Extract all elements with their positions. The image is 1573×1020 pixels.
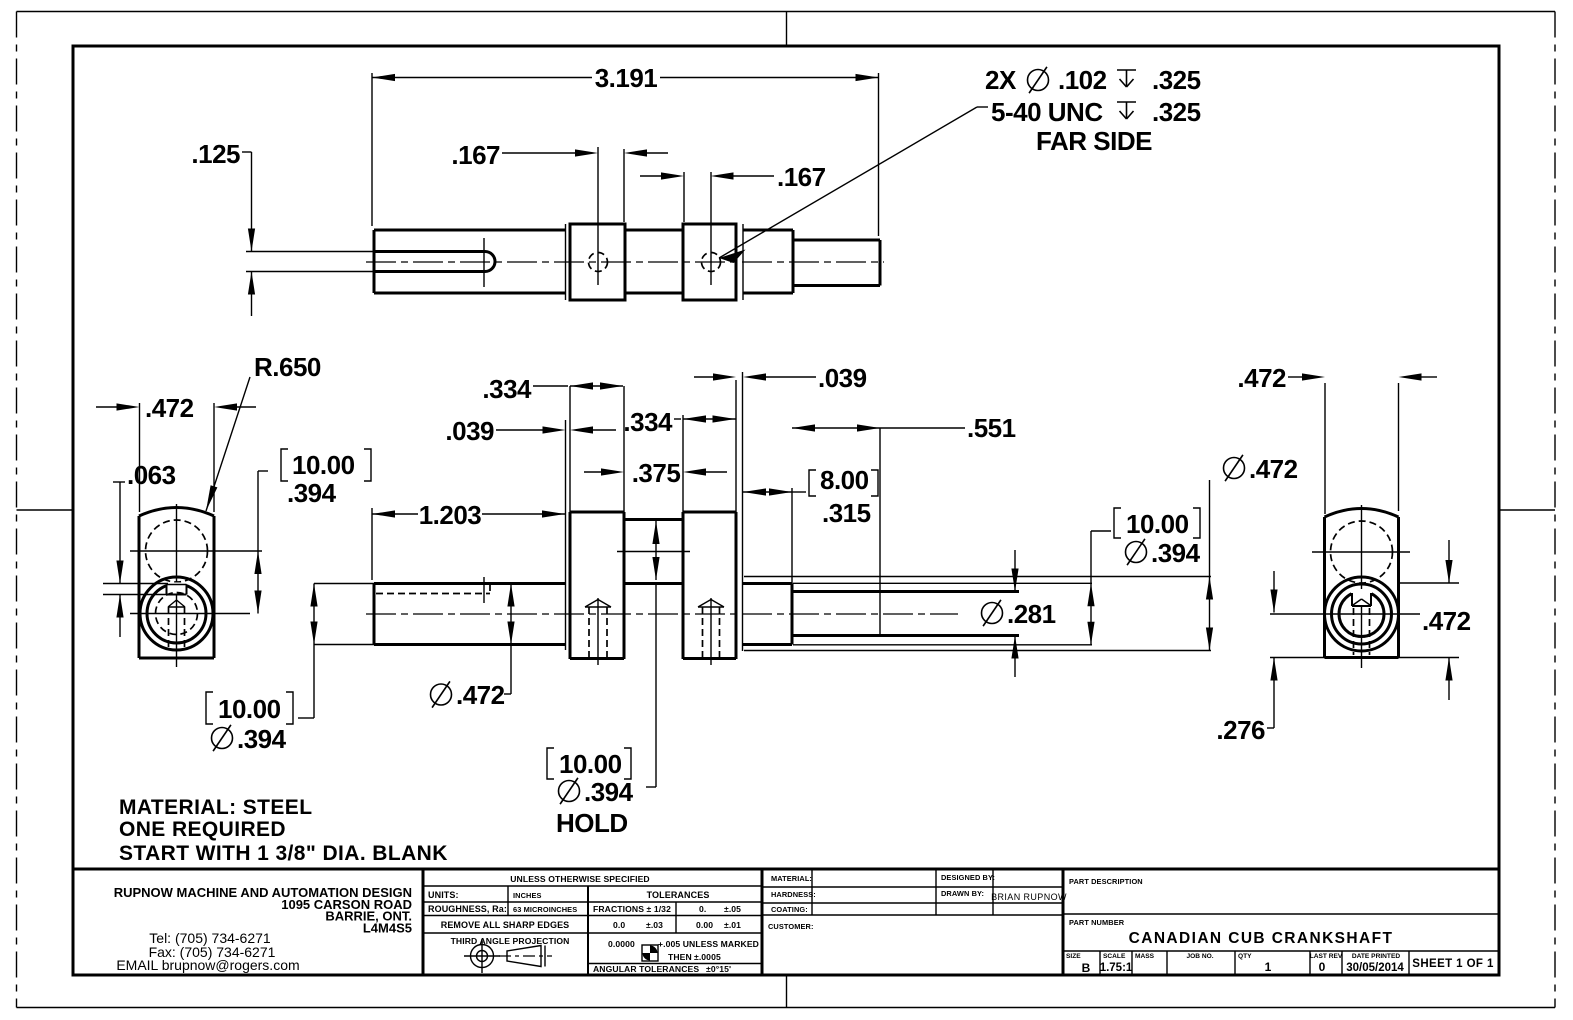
right view hub outer circle [1325,577,1399,651]
right view crosshair [1270,505,1420,668]
note FAR SIDE [1036,126,1152,156]
svg-text:±.05: ±.05 [724,904,741,914]
extension line cheek1 right edge top [623,149,625,222]
svg-text:ANGULAR TOLERANCES: ANGULAR TOLERANCES [593,964,699,974]
svg-text:EMAIL brupnow@rogers.com: EMAIL brupnow@rogers.com [116,957,299,973]
drawn by value [991,892,1067,902]
svg-text:CANADIAN CUB CRANKSHAFT: CANADIAN CUB CRANKSHAFT [1129,930,1394,947]
drawn by label [941,889,984,898]
projection symbol target [464,939,500,973]
svg-text:B: B [1082,961,1091,975]
svg-text:1.75:1: 1.75:1 [1100,962,1133,974]
left view hub mid circle [147,583,206,644]
svg-text:INCHES: INCHES [513,891,542,900]
svg-text:8.00: 8.00 [820,465,869,495]
main view shaft section after cheek2 [743,584,792,645]
top view keyway depth marker [483,238,485,287]
centering tick left [17,509,74,511]
svg-text:.167: .167 [451,140,500,170]
svg-text:.472: .472 [1249,454,1298,484]
svg-text:BRIAN RUPNOW: BRIAN RUPNOW [991,892,1067,902]
svg-text:+.005 UNLESS MARKED: +.005 UNLESS MARKED [658,939,759,949]
main view shaft top and bottom [374,584,566,645]
svg-text:1.203: 1.203 [419,500,482,530]
main view cheek2 outline [683,380,736,659]
top view keyway width extension lines [246,252,375,272]
svg-text:.334: .334 [482,374,532,404]
dimension .063 [103,460,176,637]
main view cheek2 tapped hole hidden [698,598,724,665]
extension line .551 right [879,428,881,636]
right view upper dashed circle [1331,521,1393,583]
svg-text:UNITS:: UNITS: [428,890,459,900]
hardness label [771,890,816,899]
svg-text:JOB NO.: JOB NO. [1186,953,1213,960]
svg-text:PART DESCRIPTION: PART DESCRIPTION [1069,877,1143,886]
title block grid [73,869,1499,975]
dimension .167 first [451,140,668,170]
remove sharp edges [441,920,570,930]
customer label [768,922,814,931]
dimension 10.00 dia .394 left [206,584,374,755]
dimension .276 [1216,571,1324,745]
dimension .472 right view top [1237,363,1437,514]
extension lines dia .394 right [793,583,1092,645]
main view crankpin outline [624,520,683,584]
roughness row [428,904,577,914]
tolerances header [647,890,710,900]
svg-text:CUSTOMER:: CUSTOMER: [768,922,814,931]
top view crank cheek 2 [683,224,736,300]
coating label [771,905,808,914]
svg-text:5-40 UNC: 5-40 UNC [991,97,1103,127]
extension lines dia .472 right [744,577,1211,651]
top view mid shaft section [625,230,683,293]
dimension .472 left view [96,393,256,512]
main view cheek1 left face [569,386,571,659]
centering tick bottom [786,975,788,1008]
svg-text:L4M4S5: L4M4S5 [363,921,412,936]
scale cell [1100,953,1133,974]
svg-text:0.: 0. [699,904,706,914]
svg-text:.472: .472 [456,680,505,710]
right view bore circle [1339,589,1384,637]
svg-text:.276: .276 [1216,715,1265,745]
svg-text:COATING:: COATING: [771,905,808,914]
svg-text:±.03: ±.03 [646,920,663,930]
svg-text:30/05/2014: 30/05/2014 [1346,962,1404,974]
dimension .167 second [640,162,826,192]
main view .281 section [792,592,1019,636]
left view hidden tapped hole [168,600,185,651]
left view thread dashed circle [156,593,198,635]
svg-text:QTY: QTY [1238,953,1252,960]
svg-text:.472: .472 [1422,606,1471,636]
job cell [1186,953,1213,960]
leader R.650 [206,352,321,511]
svg-text:±0°15': ±0°15' [706,964,731,974]
projection symbol cone [499,946,552,967]
svg-text:.472: .472 [1237,363,1286,393]
svg-text:.325: .325 [1152,97,1201,127]
company contact [116,930,299,973]
top view shaft section after cheek2 [743,230,793,293]
dimension .375 [584,458,727,488]
left view body outline [139,508,214,659]
part number label [1069,918,1125,927]
company name [114,885,412,936]
svg-text:0.0: 0.0 [613,920,625,930]
extension above cheek1 right [623,386,625,512]
svg-text:10.00: 10.00 [292,450,355,480]
dimension dia .472 shaft [431,584,515,711]
size cell [1066,953,1091,975]
svg-text:SHEET 1 OF 1: SHEET 1 OF 1 [1412,958,1494,970]
note 5-40 UNC depth .325 [991,97,1201,127]
centering tick top [786,12,788,47]
svg-text:±.0005: ±.0005 [694,952,721,962]
designed by label [941,873,995,882]
top view cheek 2 tapped hole [702,172,721,285]
left view hub outer circle [140,577,213,650]
svg-text:REMOVE ALL SHARP EDGES: REMOVE ALL SHARP EDGES [441,920,570,930]
tol row3 [608,939,759,962]
tol row2 [613,920,741,930]
dimension .039 first [445,416,616,446]
svg-text:HARDNESS:: HARDNESS: [771,890,816,899]
svg-text:.039: .039 [818,363,867,393]
top view centerline [366,261,884,263]
main view cheek2 left face [682,415,684,659]
top view .281 shaft section [793,240,880,286]
left view keyway notch [167,585,187,595]
svg-text:±.01: ±.01 [724,920,741,930]
svg-text:.281: .281 [1007,599,1056,629]
svg-text:ONE REQUIRED: ONE REQUIRED [119,818,286,841]
svg-text:.063: .063 [127,460,176,490]
left view crosshair [130,504,262,667]
svg-text:PART NUMBER: PART NUMBER [1069,918,1125,927]
svg-text:.375: .375 [632,458,681,488]
crankpin centerline [617,551,690,553]
dimension dia .472 right [1206,454,1298,651]
svg-text:FRACTIONS ± 1/32: FRACTIONS ± 1/32 [593,904,671,914]
main view hidden keyway [376,577,490,603]
dimension .039 second [694,363,867,393]
svg-text:.334: .334 [623,407,673,437]
svg-text:10.00: 10.00 [1126,509,1189,539]
fractions row [593,904,741,914]
note 2X dia .102 depth .325 [985,65,1201,95]
svg-text:10.00: 10.00 [218,694,281,724]
svg-text:DATE PRINTED: DATE PRINTED [1352,953,1400,960]
dimension 8.00 .315 [743,465,878,528]
main view cheek1 tapped hole hidden [585,598,611,665]
extension line cheek2 left edge top [683,172,685,222]
svg-text:.102: .102 [1058,65,1107,95]
right view keyway notch [1352,593,1371,606]
dimension .334 first [482,374,623,404]
svg-text:SCALE: SCALE [1103,953,1126,960]
svg-text:0: 0 [1319,960,1326,974]
right view hidden tapped hole [1353,599,1370,655]
main view cheek1 outline [570,512,624,659]
main view undercut left [565,420,567,650]
part number value [1129,930,1394,947]
main view step face [791,488,793,645]
svg-text:1: 1 [1265,960,1272,974]
svg-text:TOLERANCES: TOLERANCES [647,890,710,900]
svg-text:.039: .039 [445,416,494,446]
centering tick right [1499,509,1555,511]
svg-text:R.650: R.650 [254,352,321,382]
lastrev cell [1310,953,1343,974]
svg-text:0.0000: 0.0000 [608,939,635,949]
main view left end face [373,584,376,645]
part description label [1069,877,1143,886]
dimension 10.00 dia .394 right [1087,508,1200,645]
top view shaft body outline [374,230,566,293]
note leader line [719,107,988,263]
units row [428,890,542,900]
right view hub mid circle [1332,584,1392,644]
dimension 1.203 [372,500,565,580]
mass cell [1135,953,1155,960]
svg-text:THEN: THEN [668,952,692,962]
svg-text:3.191: 3.191 [595,63,658,93]
tolerance symbol [642,945,658,961]
svg-text:0.00: 0.00 [696,920,713,930]
svg-text:START WITH 1 3/8" DIA. BLANK: START WITH 1 3/8" DIA. BLANK [119,842,448,865]
svg-text:SIZE: SIZE [1066,953,1081,960]
sheet cell [1412,958,1494,970]
third angle projection [451,936,570,946]
svg-text:.325: .325 [1152,65,1201,95]
dimension .334 second [623,407,735,437]
svg-text:.472: .472 [145,393,194,423]
right view body outline [1325,509,1399,658]
date cell [1346,953,1404,974]
svg-text:DESIGNED BY:: DESIGNED BY: [941,873,995,882]
dimension 3.191 [372,63,879,236]
dimension .472 right view side [1399,540,1471,700]
dimension .125 [191,139,255,316]
main view undercut right [742,372,744,651]
dimension 10.00 .394 left view [254,449,371,614]
svg-text:UNLESS OTHERWISE SPECIFIED: UNLESS OTHERWISE SPECIFIED [510,874,649,884]
svg-text:LAST REV: LAST REV [1310,953,1343,960]
svg-text:FAR SIDE: FAR SIDE [1036,126,1152,156]
unless otherwise specified [510,874,649,884]
left view upper dashed circle [146,520,208,582]
top view keyway slot [375,252,495,272]
svg-text:2X: 2X [985,65,1017,95]
svg-text:.125: .125 [191,139,240,169]
top view crank cheek 1 [570,224,625,300]
svg-text:THIRD ANGLE PROJECTION: THIRD ANGLE PROJECTION [451,936,570,946]
svg-text:.394: .394 [1151,538,1201,568]
dimension 10.00 dia .394 hold [547,520,660,839]
svg-text:DRAWN BY:: DRAWN BY: [941,889,984,898]
top view cheek 1 tapped hole [589,147,608,285]
svg-text:10.00: 10.00 [559,749,622,779]
svg-text:ROUGHNESS, Ra:: ROUGHNESS, Ra: [428,904,507,914]
angular tolerances [593,964,731,974]
top view undercut right [742,224,744,300]
dimension .551 [792,413,1016,443]
svg-text:.394: .394 [584,777,634,807]
svg-text:.394: .394 [237,724,287,754]
svg-text:MATERIAL: STEEL: MATERIAL: STEEL [119,796,312,819]
top view undercut left [565,224,567,300]
main view centerline [366,613,958,615]
svg-text:63 MICROINCHES: 63 MICROINCHES [513,905,577,914]
svg-text:.315: .315 [822,498,871,528]
dimension dia .281 [982,550,1056,677]
svg-text:HOLD: HOLD [556,808,628,838]
qty cell [1238,953,1272,974]
svg-text:.394: .394 [287,478,337,508]
material note [119,796,448,865]
svg-text:MATERIAL:: MATERIAL: [771,874,812,883]
svg-text:.551: .551 [967,413,1016,443]
svg-text:MASS: MASS [1135,953,1155,960]
svg-text:.167: .167 [777,162,826,192]
material label [771,874,812,883]
